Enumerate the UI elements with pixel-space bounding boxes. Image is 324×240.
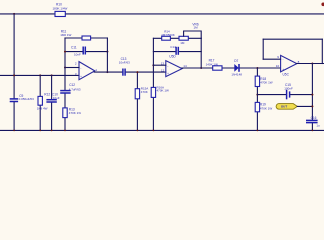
wire U5C output (296, 63, 324, 65)
junction bus R16 (153, 130, 155, 132)
svg-text:140K 1W: 140K 1W (206, 62, 219, 66)
svg-text:OUT: OUT (281, 105, 288, 109)
svg-text:1M: 1M (194, 25, 199, 29)
svg-text:1M0 1W: 1M0 1W (60, 33, 71, 37)
node top-right red marker (321, 3, 324, 7)
wire ground bus (0, 129, 324, 131)
capacitor C9 (10, 94, 34, 102)
wire C15 row (257, 94, 312, 96)
junction U5D output (200, 67, 202, 69)
svg-text:+: + (80, 74, 82, 78)
wire U5A inverting input (65, 67, 79, 69)
svg-text:100nF: 100nF (284, 87, 293, 91)
wire U5C feedback top (263, 38, 322, 40)
wire R16 branch (152, 65, 154, 130)
junction rail R12 (39, 74, 41, 76)
resistor R13 (63, 108, 82, 118)
junction port (311, 105, 313, 107)
wire U5D output (182, 67, 280, 69)
svg-text:470K: 470K (141, 90, 148, 94)
junction bus C9 (13, 130, 15, 132)
svg-text:470K 1%: 470K 1% (69, 111, 82, 115)
svg-text:12: 12 (161, 69, 165, 73)
svg-text:1M: 1M (180, 41, 185, 45)
svg-text:C14: C14 (170, 45, 176, 49)
wire U5C inverting input (263, 58, 280, 60)
svg-text:1u: 1u (316, 123, 320, 127)
svg-text:470K 1W: 470K 1W (260, 81, 273, 85)
wire C14 row (153, 51, 201, 53)
wire R15 branch (136, 72, 138, 130)
wire input drop with C9 (13, 14, 15, 130)
resistor R11 (60, 30, 90, 40)
junction inverting node (64, 67, 66, 69)
wire C12 branch (64, 68, 66, 131)
wire U5D inverting input (153, 64, 165, 66)
svg-text:C11: C11 (71, 46, 77, 50)
svg-text:4M7/560K: 4M7/560K (161, 33, 175, 37)
junction C15 tap (256, 94, 258, 96)
svg-text:-: - (283, 58, 284, 62)
junction bus C10 (51, 130, 53, 132)
junction output drop (311, 63, 313, 65)
svg-text:-: - (80, 66, 81, 70)
wire U5A feedback right (106, 38, 108, 72)
svg-text:+: + (167, 71, 169, 75)
resistor R14 (161, 29, 175, 40)
capacitor C10 (46, 92, 59, 102)
resistor R12 (37, 93, 51, 111)
trimmer VR6 (179, 22, 201, 45)
op-amp U5A (75, 61, 98, 79)
resistor R16 (151, 86, 169, 98)
wire C10 branch (51, 75, 53, 130)
capacitor C14 (170, 45, 178, 55)
resistor R17 (206, 58, 222, 70)
op-amp U5C (276, 55, 300, 76)
junction bus R15 (137, 130, 139, 132)
junction C11 left (64, 51, 66, 53)
svg-text:10uF: 10uF (53, 96, 60, 100)
wire top rail (0, 13, 324, 15)
junction bus R12 (39, 130, 41, 132)
port OUT (276, 104, 297, 110)
wire U5C feedback left (262, 39, 264, 59)
wire reference rail (0, 74, 79, 76)
junction bus C16 (312, 130, 314, 132)
svg-text:U5D: U5D (169, 54, 176, 58)
junction rail C10 (51, 74, 53, 76)
capacitor C15 (284, 83, 293, 99)
svg-text:10nF/63: 10nF/63 (119, 60, 130, 64)
svg-text:C16: C16 (311, 116, 317, 120)
junction C11 right (106, 51, 108, 53)
wire port link (297, 105, 312, 107)
junction bus R19 (257, 130, 259, 132)
capacitor C13 (119, 57, 130, 76)
resistor R18 (255, 76, 273, 86)
junction C15 right (311, 94, 313, 96)
capacitor C12 (60, 83, 81, 93)
resistor R19 (255, 102, 272, 111)
junction top rail (13, 13, 15, 15)
junction rail C9 (13, 74, 15, 76)
svg-text:D7: D7 (234, 59, 238, 63)
svg-text:1N4148: 1N4148 (231, 73, 242, 77)
wire U5C feedback right (321, 39, 323, 63)
op-amp U5D (161, 54, 187, 76)
wire U5A feedback left (64, 38, 66, 68)
svg-text:470K 1W: 470K 1W (260, 107, 273, 111)
svg-text:1K8 4W: 1K8 4W (37, 107, 48, 111)
wire R12 branch (39, 75, 41, 130)
svg-text:10: 10 (276, 64, 280, 68)
resistor R15 (135, 87, 148, 99)
capacitor C11 (71, 46, 85, 57)
junction bus R13 (64, 130, 66, 132)
diode D7 (231, 59, 242, 77)
wire U5D feedback right (200, 38, 202, 68)
wire signal stage1 to stage2 (94, 71, 166, 73)
capacitor C16 (306, 116, 320, 127)
wire C11 row (65, 51, 107, 53)
svg-text:U5C: U5C (283, 72, 290, 76)
svg-text:-: - (167, 64, 168, 68)
wire output drop (311, 64, 313, 131)
svg-text:180K 1/4W: 180K 1/4W (53, 6, 68, 10)
wire R18 R19 branch (256, 68, 258, 130)
junction R16 (152, 64, 154, 66)
svg-text:10nF: 10nF (74, 53, 81, 57)
svg-text:470K 1W: 470K 1W (157, 89, 170, 93)
resistor R10 (53, 3, 68, 17)
svg-text:R12: R12 (44, 93, 50, 97)
junction U5A output (106, 71, 108, 73)
wire U5D feedback top (153, 37, 201, 39)
svg-text:+: + (282, 67, 284, 71)
junction R18 tap (256, 67, 258, 69)
wire U5A feedback top (65, 37, 107, 39)
junction R15 (136, 71, 138, 73)
svg-text:4.7uF/63: 4.7uF/63 (69, 87, 81, 91)
svg-text:0.056uF/63: 0.056uF/63 (19, 97, 35, 101)
wire U5D feedback left (152, 38, 154, 65)
